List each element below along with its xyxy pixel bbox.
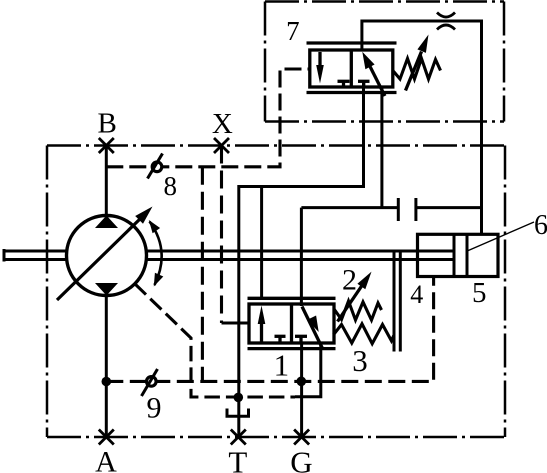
svg-text:B: B bbox=[98, 108, 117, 140]
svg-text:6: 6 bbox=[534, 210, 547, 241]
svg-text:A: A bbox=[95, 446, 117, 473]
svg-text:9: 9 bbox=[147, 392, 162, 425]
svg-text:X: X bbox=[212, 108, 233, 140]
svg-text:2: 2 bbox=[342, 264, 357, 297]
svg-text:T: T bbox=[228, 444, 247, 473]
svg-text:4: 4 bbox=[410, 280, 423, 309]
svg-text:G: G bbox=[290, 445, 312, 473]
svg-text:3: 3 bbox=[352, 343, 368, 378]
svg-text:1: 1 bbox=[274, 348, 290, 383]
svg-text:5: 5 bbox=[472, 277, 487, 309]
svg-text:8: 8 bbox=[163, 171, 177, 201]
svg-text:7: 7 bbox=[286, 16, 300, 46]
